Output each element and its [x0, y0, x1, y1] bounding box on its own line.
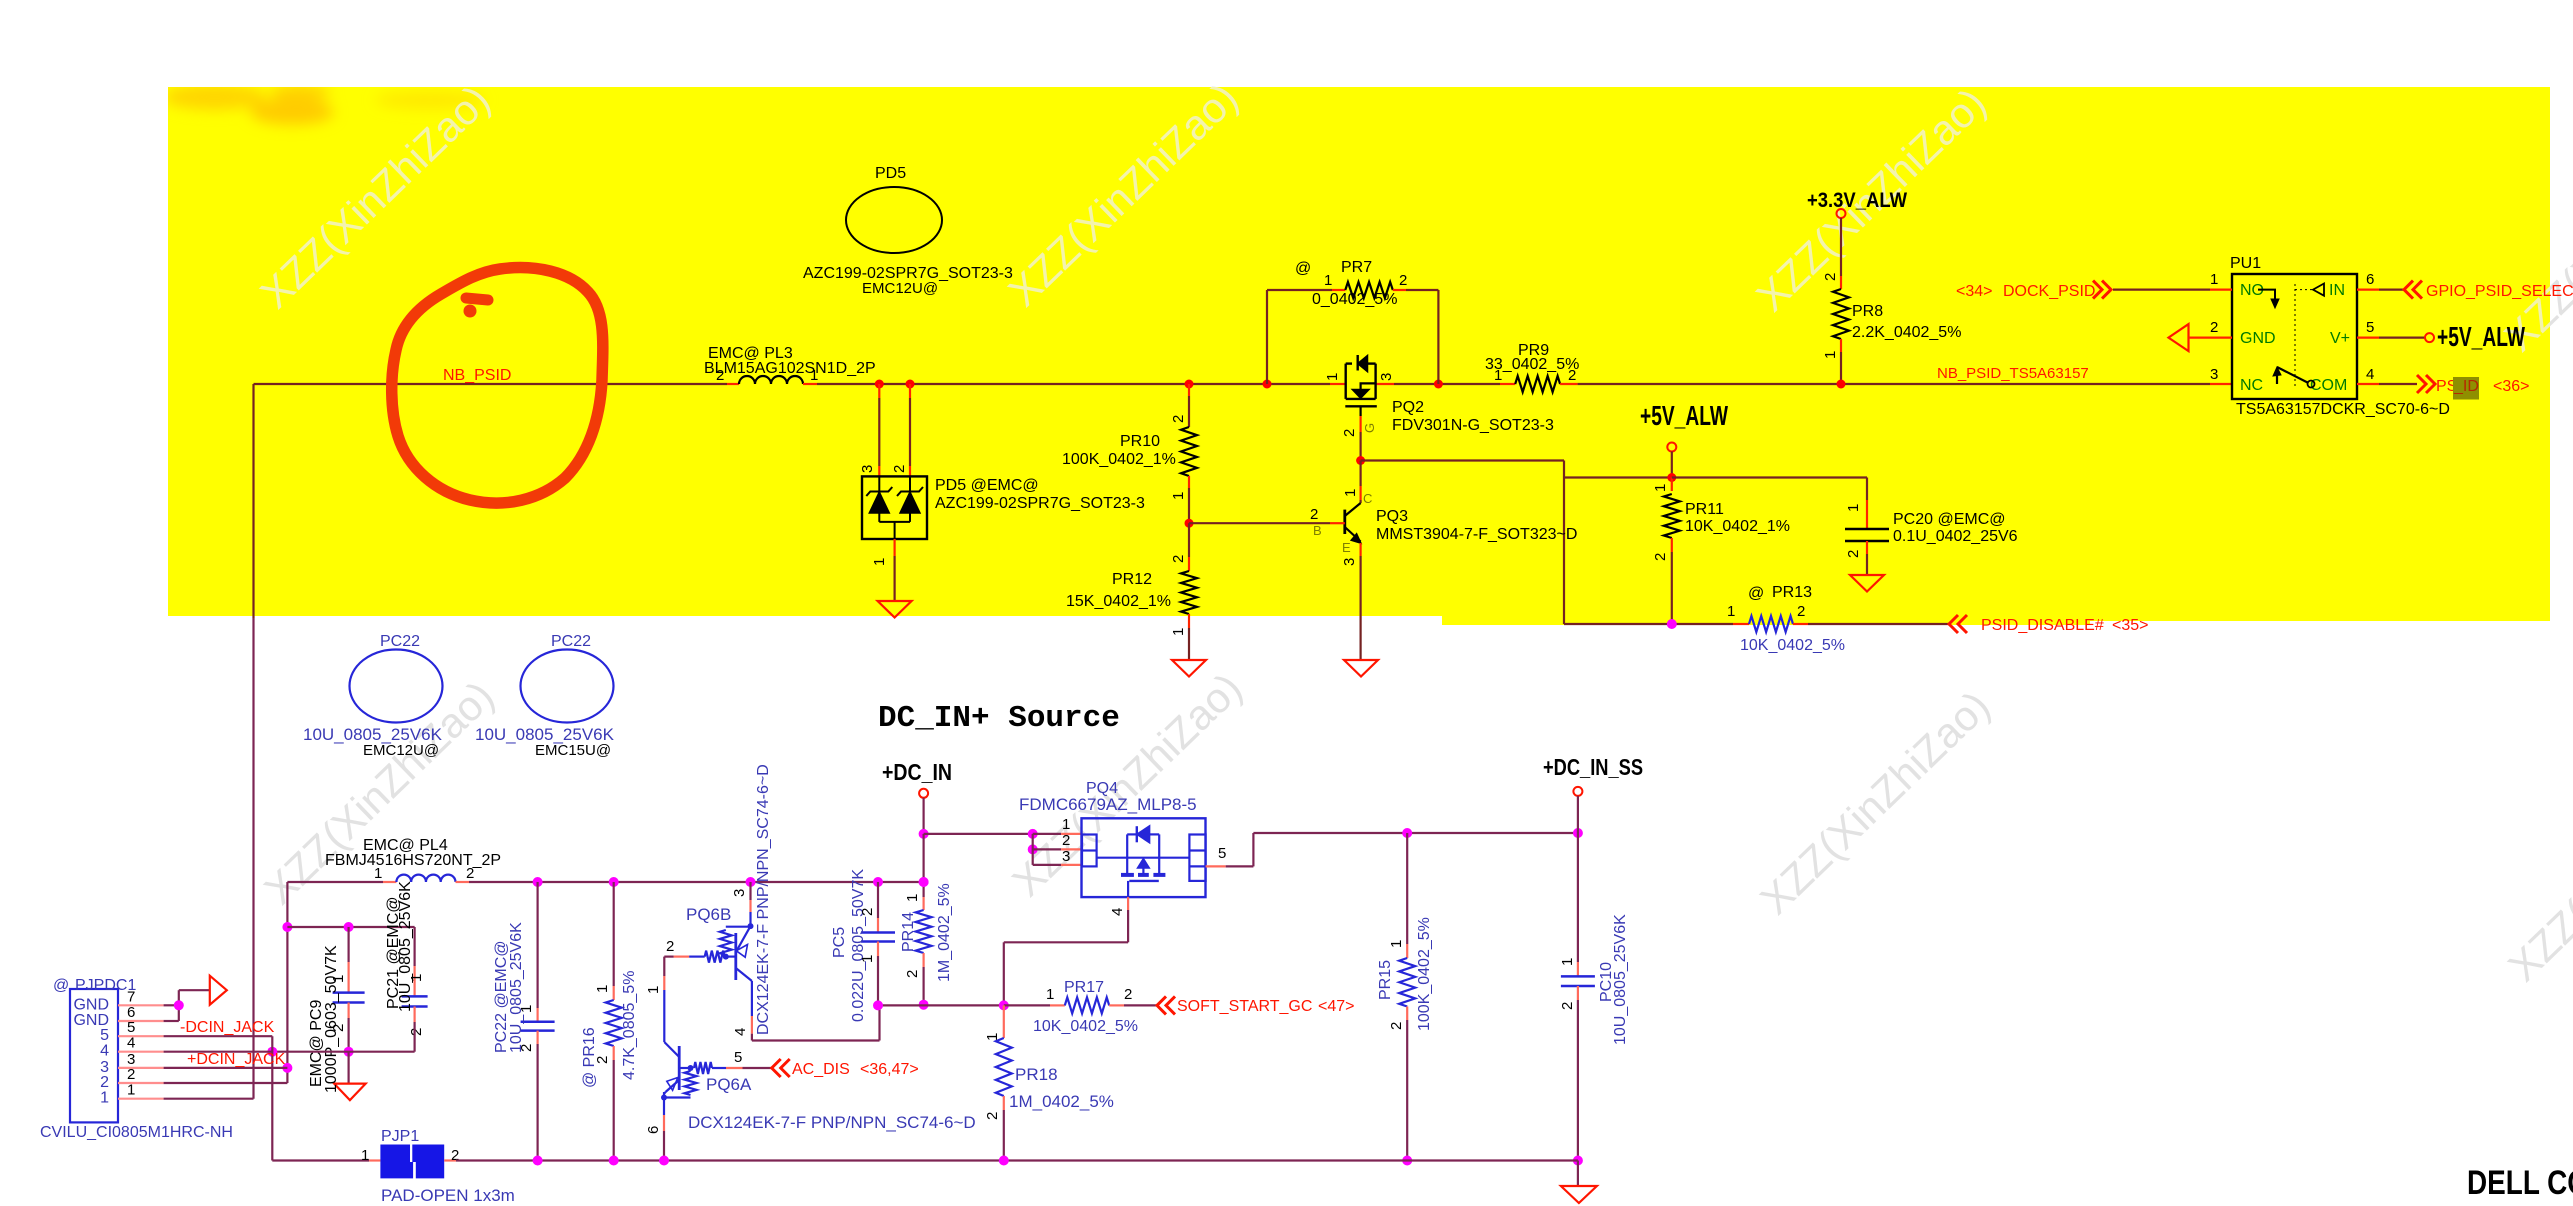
svg-text:1: 1	[1388, 940, 1405, 948]
svg-text:@: @	[1295, 260, 1311, 277]
svg-text:2: 2	[408, 1028, 425, 1036]
svg-text:0.022U_0805_50V7K: 0.022U_0805_50V7K	[850, 869, 867, 1022]
svg-text:5: 5	[100, 1027, 109, 1044]
svg-text:C: C	[1363, 491, 1372, 506]
svg-text:<36>: <36>	[2493, 378, 2529, 395]
svg-text:5: 5	[127, 1019, 135, 1036]
svg-text:4: 4	[2366, 366, 2374, 383]
svg-text:10K_0402_5%: 10K_0402_5%	[1740, 637, 1845, 654]
svg-text:1M_0402_5%: 1M_0402_5%	[1009, 1092, 1114, 1111]
svg-text:6: 6	[2366, 271, 2374, 288]
svg-text:PC5: PC5	[831, 927, 848, 958]
svg-text:1: 1	[1324, 272, 1332, 289]
svg-text:1: 1	[1062, 816, 1070, 833]
svg-text:10K_0402_5%: 10K_0402_5%	[1033, 1018, 1138, 1035]
svg-text:DCX124EK-7-F PNP/NPN_SC74-6~D: DCX124EK-7-F PNP/NPN_SC74-6~D	[755, 764, 772, 1035]
svg-text:3: 3	[1062, 848, 1070, 865]
svg-text:+5V_ALW: +5V_ALW	[1640, 400, 1728, 431]
svg-text:0.1U_0402_25V6: 0.1U_0402_25V6	[1893, 528, 2018, 545]
svg-text:2: 2	[984, 1112, 1001, 1120]
svg-text:2: 2	[1310, 506, 1318, 523]
svg-text:PQ2: PQ2	[1392, 399, 1424, 416]
svg-text:100K_0402_5%: 100K_0402_5%	[1416, 917, 1433, 1031]
svg-text:PAD-OPEN 1x3m: PAD-OPEN 1x3m	[381, 1186, 515, 1205]
svg-text:BLM15AG102SN1D_2P: BLM15AG102SN1D_2P	[704, 360, 876, 377]
svg-text:DC_IN+ Source: DC_IN+ Source	[878, 701, 1120, 736]
svg-text:PR10: PR10	[1120, 433, 1160, 450]
svg-text:3: 3	[1378, 373, 1395, 381]
svg-text:PC22: PC22	[551, 633, 591, 650]
svg-text:NB_PSID: NB_PSID	[443, 367, 511, 384]
svg-text:4: 4	[732, 1028, 749, 1036]
svg-text:1: 1	[1170, 492, 1187, 500]
svg-text:EMC12U@: EMC12U@	[862, 280, 938, 297]
svg-text:3: 3	[1341, 558, 1358, 566]
svg-text:IN: IN	[2329, 282, 2345, 299]
svg-text:1: 1	[1559, 958, 1576, 966]
svg-text:2: 2	[1797, 603, 1805, 620]
svg-text:5: 5	[734, 1049, 742, 1066]
svg-text:DOCK_PSID: DOCK_PSID	[2003, 283, 2095, 300]
svg-text:GND: GND	[2240, 330, 2276, 347]
svg-text:2.2K_0402_5%: 2.2K_0402_5%	[1852, 324, 1961, 341]
svg-text:AC_DIS: AC_DIS	[792, 1061, 850, 1078]
svg-text:10U_0805_25V6K: 10U_0805_25V6K	[1612, 914, 1629, 1045]
svg-text:5: 5	[1218, 845, 1226, 862]
svg-text:PJP1: PJP1	[381, 1128, 419, 1145]
svg-text:1: 1	[1822, 351, 1839, 359]
svg-text:1: 1	[1046, 986, 1054, 1003]
svg-text:2: 2	[1559, 1002, 1576, 1010]
svg-text:<47>: <47>	[1318, 998, 1354, 1015]
svg-text:2: 2	[666, 938, 674, 955]
svg-text:PU1: PU1	[2230, 255, 2261, 272]
svg-text:1M_0402_5%: 1M_0402_5%	[936, 883, 953, 982]
svg-text:B: B	[1313, 523, 1322, 538]
svg-text:0_0402_5%: 0_0402_5%	[1312, 291, 1397, 308]
svg-text:PC20 @EMC@: PC20 @EMC@	[1893, 511, 2006, 528]
svg-text:FBMJ4516HS720NT_2P: FBMJ4516HS720NT_2P	[325, 852, 501, 869]
svg-text:10U_0805_25V6K: 10U_0805_25V6K	[508, 922, 525, 1053]
svg-text:+3.3V_ALW: +3.3V_ALW	[1807, 189, 1907, 212]
svg-text:PR7: PR7	[1341, 259, 1372, 276]
svg-text:PR17: PR17	[1064, 979, 1104, 996]
svg-text:_ID: _ID	[2453, 378, 2479, 395]
svg-text:CVILU_CI0805M1HRC-NH: CVILU_CI0805M1HRC-NH	[40, 1124, 233, 1141]
svg-text:PD5 @EMC@: PD5 @EMC@	[935, 477, 1039, 494]
svg-text:1: 1	[100, 1090, 109, 1107]
svg-text:1: 1	[859, 955, 876, 963]
svg-text:G: G	[1362, 423, 1377, 433]
svg-text:1: 1	[361, 1147, 369, 1164]
svg-text:@: @	[53, 977, 69, 994]
svg-text:1: 1	[1727, 603, 1735, 620]
svg-text:PC22: PC22	[380, 633, 420, 650]
svg-text:1: 1	[2210, 271, 2218, 288]
svg-text:<34>: <34>	[1956, 283, 1992, 300]
svg-text:+DC_IN_SS: +DC_IN_SS	[1543, 754, 1643, 780]
svg-text:15K_0402_1%: 15K_0402_1%	[1066, 593, 1171, 610]
svg-text:2: 2	[1341, 429, 1358, 437]
svg-text:2: 2	[1170, 555, 1187, 563]
svg-text:2: 2	[1822, 273, 1839, 281]
svg-text:PQ6B: PQ6B	[686, 905, 731, 924]
svg-text:100K_0402_1%: 100K_0402_1%	[1062, 451, 1176, 468]
svg-text:PR11: PR11	[1685, 501, 1724, 518]
svg-text:PR12: PR12	[1112, 571, 1152, 588]
svg-text:2: 2	[1652, 553, 1669, 561]
svg-text:4: 4	[127, 1035, 135, 1052]
svg-text:1000P_0603_50V7K: 1000P_0603_50V7K	[323, 945, 340, 1093]
svg-text:2: 2	[1568, 367, 1576, 384]
svg-text:1: 1	[904, 894, 921, 902]
svg-text:@: @	[1748, 585, 1764, 602]
svg-text:1: 1	[871, 558, 888, 566]
svg-text:3: 3	[2210, 366, 2218, 383]
svg-text:PR13: PR13	[1772, 584, 1812, 601]
svg-text:EMC12U@: EMC12U@	[363, 742, 439, 759]
svg-text:2: 2	[127, 1066, 135, 1083]
svg-text:V+: V+	[2330, 330, 2350, 347]
svg-text:5: 5	[2366, 319, 2374, 336]
svg-text:TS5A63157DCKR_SC70-6~D: TS5A63157DCKR_SC70-6~D	[2236, 401, 2450, 418]
svg-text:2: 2	[100, 1074, 109, 1091]
svg-text:3: 3	[731, 889, 748, 897]
svg-text:@ PR16: @ PR16	[581, 1027, 598, 1088]
svg-text:MMST3904-7-F_SOT323~D: MMST3904-7-F_SOT323~D	[1376, 526, 1577, 543]
svg-text:2: 2	[1062, 832, 1070, 849]
svg-text:PR18: PR18	[1015, 1065, 1058, 1084]
svg-text:DCX124EK-7-F PNP/NPN_SC74-6~D: DCX124EK-7-F PNP/NPN_SC74-6~D	[688, 1113, 976, 1132]
svg-text:1: 1	[1342, 489, 1359, 497]
svg-text:1: 1	[594, 985, 611, 993]
svg-text:2: 2	[466, 865, 474, 882]
svg-text:4: 4	[1109, 908, 1126, 916]
svg-text:7: 7	[127, 988, 135, 1005]
svg-text:1: 1	[810, 367, 818, 384]
svg-text:FDV301N-G_SOT23-3: FDV301N-G_SOT23-3	[1392, 417, 1554, 434]
svg-text:3: 3	[859, 465, 876, 473]
svg-text:2: 2	[1399, 272, 1407, 289]
svg-text:+DC_IN: +DC_IN	[882, 759, 952, 785]
svg-text:PSID_DISABLE#: PSID_DISABLE#	[1981, 617, 2104, 634]
svg-text:4.7K_0805_5%: 4.7K_0805_5%	[621, 971, 638, 1080]
svg-text:1: 1	[1494, 367, 1502, 384]
svg-text:PR14: PR14	[900, 912, 917, 952]
svg-text:GPIO_PSID_SELECT: GPIO_PSID_SELECT	[2426, 283, 2573, 300]
svg-text:2: 2	[2210, 319, 2218, 336]
svg-text:1: 1	[1170, 628, 1187, 636]
svg-text:<36,47>: <36,47>	[860, 1061, 919, 1078]
svg-text:+5V_ALW: +5V_ALW	[2437, 321, 2525, 352]
svg-text:DELL CO: DELL CO	[2467, 1164, 2573, 1202]
svg-text:2: 2	[859, 908, 876, 916]
svg-text:4: 4	[100, 1043, 109, 1060]
svg-text:PR15: PR15	[1377, 960, 1394, 1000]
svg-text:+DCIN_JACK: +DCIN_JACK	[187, 1051, 286, 1068]
svg-text:PQ6A: PQ6A	[706, 1075, 752, 1094]
svg-text:EMC15U@: EMC15U@	[535, 742, 611, 759]
svg-text:1: 1	[1845, 504, 1862, 512]
svg-text:SOFT_START_GC: SOFT_START_GC	[1177, 998, 1312, 1015]
svg-text:2: 2	[1124, 986, 1132, 1003]
svg-text:GND: GND	[73, 996, 109, 1013]
svg-text:-DCIN_JACK: -DCIN_JACK	[180, 1019, 275, 1036]
svg-text:10U_0805_25V6K: 10U_0805_25V6K	[397, 881, 414, 1012]
svg-text:2: 2	[716, 367, 724, 384]
svg-text:AZC199-02SPR7G_SOT23-3: AZC199-02SPR7G_SOT23-3	[935, 495, 1145, 512]
svg-text:1: 1	[374, 865, 382, 882]
svg-text:1: 1	[127, 1082, 135, 1099]
svg-text:10K_0402_1%: 10K_0402_1%	[1685, 518, 1790, 535]
svg-text:PQ3: PQ3	[1376, 508, 1408, 525]
svg-text:2: 2	[1388, 1022, 1405, 1030]
svg-text:1: 1	[1324, 373, 1341, 381]
svg-text:6: 6	[645, 1126, 662, 1134]
svg-text:E: E	[1342, 540, 1351, 555]
svg-text:NC: NC	[2240, 377, 2263, 394]
svg-text:2: 2	[891, 465, 908, 473]
svg-text:1: 1	[645, 986, 662, 994]
svg-text:<35>: <35>	[2112, 617, 2148, 634]
svg-text:2: 2	[904, 970, 921, 978]
svg-text:1: 1	[1652, 484, 1669, 492]
svg-text:COM: COM	[2310, 377, 2347, 394]
svg-text:FDMC6679AZ_MLP8-5: FDMC6679AZ_MLP8-5	[1019, 795, 1197, 814]
svg-text:2: 2	[1170, 415, 1187, 423]
svg-text:NB_PSID_TS5A63157: NB_PSID_TS5A63157	[1937, 365, 2089, 382]
svg-text:PD5: PD5	[875, 165, 906, 182]
svg-text:2: 2	[1845, 550, 1862, 558]
svg-text:PR8: PR8	[1852, 303, 1883, 320]
